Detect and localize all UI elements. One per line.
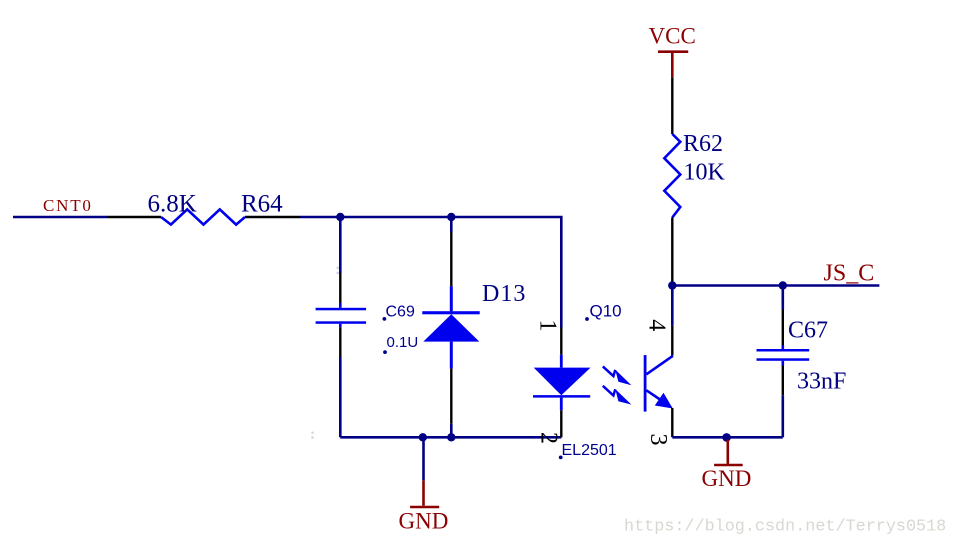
svg-text:EL2501: EL2501 (562, 442, 617, 459)
svg-text:GND: GND (399, 509, 449, 534)
capacitor C69 bottom pin (339, 327, 341, 357)
capacitor C69 top pin (339, 273, 341, 304)
wire: D13 branch upper stub (450, 217, 453, 232)
svg-text:C69: C69 (386, 303, 415, 320)
wire: opto pin4 upper (671, 286, 674, 326)
wire: C69 branch upper (339, 217, 342, 273)
wire: top horizontal to opto corner (300, 217, 561, 328)
resistor R62 (664, 134, 680, 218)
optocoupler LED pin 2 (560, 410, 562, 437)
svg-text:2: 2 (535, 432, 561, 444)
svg-text:R62: R62 (683, 131, 723, 157)
opto phototransistor (645, 355, 673, 412)
svg-text:6.8K: 6.8K (148, 191, 197, 218)
junction at opto collector (668, 281, 676, 289)
svg-text:0.1U: 0.1U (387, 334, 419, 351)
junction at D13 branch (447, 213, 455, 221)
wire: D13 branch lower stub (450, 424, 453, 438)
wire: net CNT0 horizontal segment (13, 216, 107, 219)
capacitor C67 (757, 345, 810, 365)
svg-text:3: 3 (645, 434, 671, 446)
diode D13 top pin (450, 232, 452, 286)
svg-text:CNT0: CNT0 (43, 196, 93, 215)
svg-text:4: 4 (643, 319, 669, 331)
wire: JS_C horizontal (672, 284, 879, 287)
power symbol VCC (658, 52, 688, 77)
diode D13 bottom pin (450, 369, 452, 424)
resistor R64 left pin (107, 216, 161, 218)
optocoupler pin 3 (671, 408, 673, 437)
svg-text:JS_C: JS_C (824, 261, 875, 287)
diode D13 (422, 286, 479, 368)
svg-text:C67: C67 (788, 318, 828, 344)
junction at C67 branch (779, 281, 787, 289)
svg-text:10K: 10K (684, 159, 726, 185)
optocoupler U? LED pin 1 (560, 328, 562, 355)
marker dot Q10 (585, 317, 589, 321)
capacitor C67 bottom pin (782, 366, 784, 396)
svg-text:Q10: Q10 (590, 302, 622, 321)
wire: C67 branch upper (781, 286, 784, 310)
svg-text:1: 1 (534, 320, 560, 332)
wire: GND stem upper (422, 437, 425, 480)
wire: bottom-left horizontal (340, 436, 561, 439)
wire: C67 branch lower (781, 395, 784, 437)
light arrow 1 (603, 366, 632, 385)
svg-text:D13: D13 (482, 281, 526, 307)
ground symbol left (410, 480, 439, 507)
resistor R64 right pin (245, 216, 300, 218)
junction at C69 branch (336, 213, 344, 221)
svg-text:https://blog.csdn.net/Terrys05: https://blog.csdn.net/Terrys0518 (624, 518, 946, 537)
svg-text:VCC: VCC (649, 24, 696, 49)
optocoupler LED emitter diode (533, 355, 591, 411)
resistor R62 top pin (671, 77, 673, 134)
ghost speck A (337, 267, 339, 274)
resistor R62 bottom pin (671, 218, 673, 286)
junction at D13 bottom (447, 433, 455, 441)
junction at GND tap (419, 433, 427, 441)
ghost speck B (311, 432, 313, 439)
marker dot C69 (383, 317, 387, 321)
wire: C69 branch lower (339, 357, 342, 437)
capacitor C69 (316, 303, 367, 327)
capacitor C67 top pin (782, 310, 784, 346)
marker dot EL2501 (559, 456, 563, 460)
svg-text:GND: GND (702, 466, 752, 491)
optocoupler pin 4 (671, 326, 673, 356)
junction at right GND tap (722, 433, 731, 442)
wire: bottom-right horizontal (672, 436, 783, 439)
resistor R64 (161, 209, 245, 224)
svg-text:33nF: 33nF (797, 369, 846, 395)
ground symbol right (714, 440, 743, 466)
svg-text:R64: R64 (241, 191, 283, 218)
marker dot 0.1U (383, 350, 387, 354)
light arrow 2 (603, 386, 632, 405)
